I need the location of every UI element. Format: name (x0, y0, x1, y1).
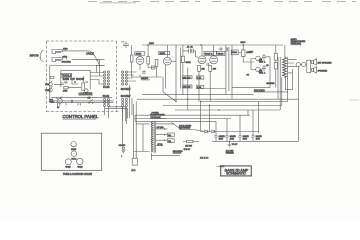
scan noise top edge (88, 2, 356, 3)
switch S1 (88, 98, 94, 104)
svg-text:TUBE LOCATION CHART: TUBE LOCATION CHART (63, 173, 93, 176)
rectifier SR2 (168, 139, 175, 143)
svg-text:GROUND: GROUND (62, 62, 72, 64)
svg-text:450V: 450V (219, 138, 224, 140)
label voltages note (200, 156, 209, 159)
capacitor C2 (71, 100, 72, 103)
control panel dashed enclosure (46, 41, 120, 112)
svg-text:6BQ5: 6BQ5 (218, 54, 224, 56)
fuse F3 (302, 63, 306, 67)
svg-text:5V 2A: 5V 2A (158, 143, 164, 146)
svg-text:15K 1W: 15K 1W (183, 87, 190, 89)
svg-text:CHASSIS: CHASSIS (226, 151, 235, 154)
potentiometer LOUDNESS (79, 89, 93, 96)
svg-text:TO CT: TO CT (232, 144, 238, 146)
svg-text:+: + (121, 156, 123, 158)
wire panel bottom ticks (58, 103, 81, 106)
svg-text:180: 180 (201, 69, 205, 71)
tone circuit inner box (61, 70, 90, 89)
svg-text:SW: SW (88, 98, 91, 100)
wire transformer to rectifier diagonal (172, 123, 181, 130)
label 20MFD (141, 78, 150, 80)
power transformer T1 (151, 121, 155, 153)
label CONTROL PANEL (62, 114, 98, 119)
wire socket drops bends (105, 107, 127, 122)
rectifier SR1 (168, 133, 175, 137)
svg-text:SCHEMATIC: SCHEMATIC (226, 172, 246, 176)
wire stage1 (132, 45, 162, 77)
resistor R6 (147, 57, 150, 65)
svg-text:5Y3 GT: 5Y3 GT (184, 149, 191, 151)
svg-text:A.C.: A.C. (131, 169, 136, 172)
diode D2 (212, 130, 217, 133)
wire transformer primary (134, 102, 150, 154)
wire switch leads (122, 107, 124, 147)
tube V1A label (135, 52, 145, 56)
label GROUND2 (173, 151, 183, 154)
resistor R9 (181, 56, 191, 64)
svg-text:EXT SPEAKER: EXT SPEAKER (318, 61, 332, 64)
svg-text:350V: 350V (241, 42, 246, 44)
svg-text:BASS CUT BOOST: BASS CUT BOOST (63, 78, 85, 81)
wire cap ground rail (183, 99, 299, 141)
svg-text:500K: 500K (49, 102, 54, 104)
bias network cluster (247, 54, 269, 76)
svg-text:6AN8: 6AN8 (160, 52, 166, 55)
svg-text:450V: 450V (256, 138, 261, 140)
ground GND1 (228, 141, 239, 147)
capacitor C7 (219, 48, 224, 51)
svg-text:325V: 325V (149, 43, 154, 45)
resistor R2 input (51, 76, 54, 78)
svg-text:VOL: VOL (45, 84, 49, 86)
svg-text:SIL: SIL (168, 135, 171, 137)
speaker SP2 (312, 67, 328, 73)
wire B+ bus top (142, 44, 283, 46)
tube V1B (163, 57, 171, 65)
svg-text:CONTROL PANEL: CONTROL PANEL (62, 114, 98, 119)
wire cable leads (63, 49, 105, 65)
fuse F2 (296, 63, 300, 67)
tube V3 label (217, 51, 225, 55)
output transformer T2 (278, 57, 288, 78)
power transformer label (150, 112, 166, 118)
capacitor C11 (225, 133, 236, 141)
svg-text:SIL: SIL (168, 141, 171, 143)
input brace (40, 50, 44, 61)
jack J1 (52, 48, 68, 53)
resistor R17 (185, 140, 193, 147)
wire power verticals (201, 102, 259, 134)
wire rectifier row (201, 131, 259, 133)
wire plug drops (105, 85, 132, 124)
svg-text:.02 .02: .02 .02 (187, 47, 193, 49)
resistor R8 (155, 60, 158, 67)
tube chart V2 (71, 151, 77, 160)
resistor R12 value box (196, 76, 203, 80)
wire output stage (137, 45, 299, 110)
potentiometer VOLUME2 (49, 97, 62, 104)
capacitor C13 (251, 133, 262, 141)
resistor R12 cathode (198, 65, 206, 71)
svg-text:450V: 450V (230, 138, 235, 140)
resistor R5 plate (130, 55, 133, 62)
svg-text:1.5K: 1.5K (197, 78, 202, 80)
ground GND2 power (119, 145, 126, 158)
wire speaker leads (299, 64, 307, 99)
wire stage2 (157, 45, 177, 89)
wire panel to power drops (135, 77, 176, 121)
jack J2 (52, 57, 71, 64)
tube V2 (198, 56, 206, 64)
wire driver area (238, 45, 276, 88)
title box (217, 165, 252, 176)
connector socket S3 (lower) (121, 95, 131, 107)
jack J3 (307, 60, 311, 72)
svg-text:6AN8: 6AN8 (71, 148, 77, 151)
resistor R13 value box (196, 85, 203, 89)
svg-text:500K: 500K (186, 62, 191, 64)
svg-text:SPEAKER: SPEAKER (318, 69, 328, 72)
svg-text:6BQ5: 6BQ5 (77, 166, 83, 168)
svg-text:GROUND: GROUND (266, 83, 275, 85)
resistor R16 (274, 63, 277, 70)
svg-text:1.5K: 1.5K (249, 52, 254, 54)
svg-text:TONE: TONE (45, 90, 51, 92)
svg-text:15K 1W: 15K 1W (183, 77, 190, 79)
wire tone box top (50, 66, 105, 103)
label TREBLE (61, 73, 72, 77)
svg-text:PLUG: PLUG (103, 86, 110, 89)
capacitor C8 (226, 48, 227, 53)
AC plug (131, 154, 137, 172)
tube V4 label (231, 50, 238, 55)
svg-text:10: 10 (57, 107, 60, 109)
resistor R10 label (182, 76, 192, 80)
tube chart V4 (77, 158, 84, 168)
label rectifier note (179, 125, 204, 132)
svg-text:470K: 470K (63, 90, 68, 92)
output transformer label (291, 38, 306, 45)
svg-text:CABLE: CABLE (86, 52, 94, 55)
tube V1A (136, 55, 144, 64)
svg-text:6BQ5 &: 6BQ5 & (205, 54, 213, 56)
svg-text:600V .1: 600V .1 (259, 73, 265, 75)
diode D1 (202, 130, 211, 133)
svg-text:6AN8: 6AN8 (136, 53, 142, 56)
tube chart V3 (65, 159, 71, 169)
resistor R11 label (182, 85, 192, 89)
connector plug P2 (lower) (103, 95, 110, 107)
svg-text:ON-OFF: ON-OFF (119, 145, 125, 147)
wire socket to stage1 (128, 72, 137, 81)
wire secondary leads (151, 124, 180, 160)
svg-text:GND: GND (63, 57, 68, 59)
resistor R7 cathode (151, 66, 155, 69)
svg-text:6CA4: 6CA4 (232, 51, 238, 54)
wire bus vertical main (176, 45, 181, 102)
tube V1B label (159, 51, 170, 55)
svg-text:ALL V. DC: ALL V. DC (200, 156, 209, 159)
wire jack to plug (96, 60, 105, 66)
capacitor C4 cathode (142, 70, 146, 75)
wire splitter (183, 45, 198, 95)
capacitor C10 (214, 133, 225, 141)
resistor R13 cathode (209, 65, 217, 71)
tube location chart box (41, 133, 101, 170)
capacitor C5 coupling (187, 49, 192, 54)
connector plug P1 (upper) (103, 71, 110, 89)
svg-text:PLUG: PLUG (103, 95, 110, 98)
svg-text:INPUTS: INPUTS (30, 54, 39, 57)
capacitor C3 input shield (121, 42, 129, 49)
wire channel row2 (51, 97, 113, 102)
svg-text:CT: CT (247, 74, 250, 76)
scan noise right edge (349, 99, 359, 101)
resistor R3 (63, 86, 68, 92)
svg-text:TREBLE: TREBLE (62, 73, 72, 77)
wire transformer drops (278, 78, 288, 111)
svg-text:10K 1W: 10K 1W (185, 145, 192, 147)
junction dots (147, 44, 243, 142)
resistor R4 (82, 83, 85, 90)
wire 16ohm loop (285, 69, 292, 90)
svg-text:6BQ5: 6BQ5 (65, 166, 71, 168)
potentiometer TONE1 (45, 87, 53, 93)
wire ground bus (232, 88, 288, 92)
svg-text:6.3 V.AC: 6.3 V.AC (157, 126, 165, 129)
capacitor C1 tone (65, 81, 87, 83)
wire lower buses (135, 102, 288, 122)
resistor R14 (241, 50, 251, 56)
svg-text:600V .1: 600V .1 (259, 62, 265, 64)
wire tone to plug (90, 60, 103, 84)
svg-text:450V: 450V (243, 138, 248, 140)
potentiometer VOLUME1 (45, 81, 53, 86)
tube V2 label (204, 51, 216, 55)
wire tone internals (54, 76, 83, 88)
svg-text:.02: .02 (266, 65, 269, 67)
capacitor C12 (238, 133, 249, 141)
speaker SP1 (312, 59, 333, 65)
tube V3 (210, 56, 218, 64)
tube chart V1 (71, 142, 77, 151)
resistor R15 (274, 53, 277, 60)
wire bus right verticals (226, 45, 232, 99)
svg-text:180: 180 (213, 69, 217, 71)
capacitor C6 coupling (192, 49, 196, 54)
svg-text:6CA4: 6CA4 (71, 157, 77, 160)
connector socket S2 (upper) (121, 71, 131, 91)
label ground note (226, 149, 235, 154)
wire transformer taps (285, 45, 297, 73)
